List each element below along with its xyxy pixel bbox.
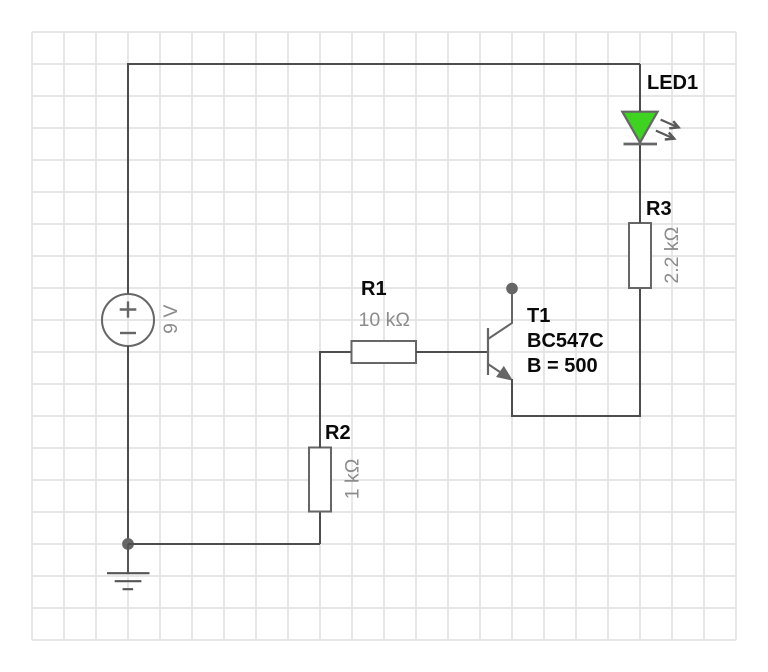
transistor T1 base bar bbox=[487, 328, 489, 375]
LED1 light arrow lower bbox=[656, 131, 672, 138]
resistor R3 box bbox=[629, 223, 651, 288]
wire R3 top lead to LED cathode bbox=[639, 144, 641, 223]
LED1 light arrow upper bbox=[661, 120, 677, 127]
wire R1 right lead to transistor base bbox=[416, 351, 487, 353]
resistor R1 box bbox=[352, 341, 417, 363]
battery minus sign bbox=[120, 332, 136, 334]
wire R2 bottom lead bbox=[319, 511, 321, 544]
wire R3 bottom lead bbox=[639, 288, 641, 417]
svg-text:T1: T1 bbox=[527, 305, 550, 327]
svg-text:2.2 kΩ: 2.2 kΩ bbox=[661, 227, 683, 284]
resistor R2 box bbox=[309, 448, 331, 512]
transistor T1 emitter arrowhead bbox=[497, 367, 512, 380]
wire R2 top lead up and over to R1 bbox=[320, 352, 352, 448]
svg-text:10 kΩ: 10 kΩ bbox=[359, 309, 410, 331]
battery V1 circle bbox=[102, 294, 154, 346]
svg-text:BC547C: BC547C bbox=[527, 330, 604, 352]
svg-text:LED1: LED1 bbox=[647, 72, 698, 94]
transistor T1 collector stroke bbox=[488, 290, 512, 339]
ground symbol bars bbox=[107, 573, 150, 589]
collector terminal dot bbox=[506, 283, 518, 295]
LED1 triangle bbox=[622, 112, 657, 143]
LED1 light arrow upper head bbox=[669, 121, 678, 128]
LED1 cathode bar bbox=[624, 143, 658, 146]
wire left rail battery positive lead bbox=[127, 63, 129, 294]
svg-text:R2: R2 bbox=[325, 422, 351, 444]
wire emitter down lead bbox=[511, 379, 513, 416]
svg-text:B = 500: B = 500 bbox=[527, 355, 598, 377]
wire bottom right from emitter to R3 bbox=[511, 415, 640, 417]
svg-text:9 V: 9 V bbox=[160, 305, 182, 334]
wire LED top lead bbox=[639, 64, 641, 112]
svg-text:1 kΩ: 1 kΩ bbox=[341, 459, 363, 500]
junction dot ground node bbox=[122, 538, 134, 550]
battery plus sign bbox=[120, 301, 137, 317]
wire bottom from ground node to R2 bbox=[128, 543, 320, 545]
svg-text:R3: R3 bbox=[646, 198, 672, 220]
LED1 light arrow lower head bbox=[665, 132, 674, 139]
transistor T1 emitter stroke bbox=[488, 364, 508, 378]
ground lead wire bbox=[127, 544, 129, 573]
wire top rail from battery + to LED anode bbox=[128, 63, 640, 65]
wire left rail battery negative lead bbox=[127, 346, 129, 544]
svg-text:R1: R1 bbox=[361, 278, 387, 300]
